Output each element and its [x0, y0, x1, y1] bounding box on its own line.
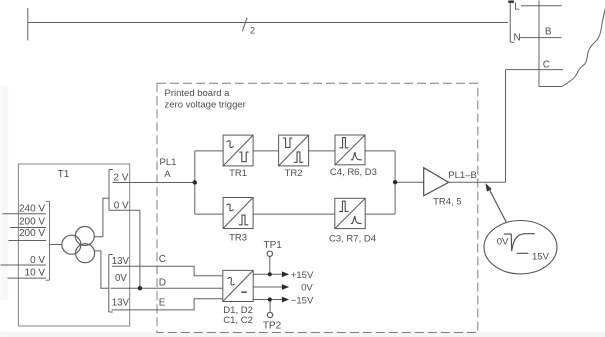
svg-text:13V: 13V — [112, 297, 130, 308]
svg-text:13V: 13V — [112, 256, 130, 267]
svg-text:L: L — [514, 2, 520, 13]
svg-text:B: B — [545, 27, 552, 38]
svg-text:0 V: 0 V — [114, 200, 129, 211]
svg-text:TR2: TR2 — [285, 168, 303, 179]
svg-text:A: A — [164, 169, 171, 180]
svg-text:C4, R6, D3: C4, R6, D3 — [330, 167, 377, 178]
svg-text:TP1: TP1 — [264, 240, 283, 251]
svg-text:PL1: PL1 — [160, 157, 177, 168]
svg-text:2 V: 2 V — [113, 172, 128, 183]
svg-text:T1: T1 — [58, 169, 70, 180]
svg-text:200 V: 200 V — [19, 217, 45, 228]
svg-text:TP2: TP2 — [263, 320, 282, 331]
svg-text:0 V: 0 V — [30, 255, 45, 266]
svg-text:0V: 0V — [301, 283, 313, 294]
svg-text:Printed board a: Printed board a — [165, 88, 231, 99]
svg-text:−15V: −15V — [291, 295, 314, 306]
svg-text:0V: 0V — [497, 236, 509, 247]
svg-text:TR3: TR3 — [229, 233, 247, 244]
svg-text:C: C — [543, 59, 550, 70]
svg-text:C3, R7, D4: C3, R7, D4 — [329, 233, 376, 244]
svg-text:240 V: 240 V — [19, 204, 45, 215]
svg-text:C: C — [159, 254, 166, 265]
svg-text:0V: 0V — [115, 273, 127, 284]
svg-text:N: N — [514, 33, 521, 44]
svg-text:PL1–B: PL1–B — [448, 170, 477, 181]
svg-text:zero voltage trigger: zero voltage trigger — [165, 100, 246, 111]
svg-text:TR4, 5: TR4, 5 — [433, 197, 462, 208]
svg-text:15V: 15V — [532, 252, 550, 263]
svg-text:C1, C2: C1, C2 — [223, 315, 253, 326]
svg-text:D: D — [159, 277, 166, 288]
svg-text:TR1: TR1 — [229, 168, 247, 179]
svg-text:200 V: 200 V — [19, 228, 45, 239]
svg-text:E: E — [159, 298, 166, 309]
svg-text:2: 2 — [250, 26, 255, 36]
svg-text:+15V: +15V — [291, 270, 314, 281]
svg-text:10 V: 10 V — [25, 268, 46, 279]
